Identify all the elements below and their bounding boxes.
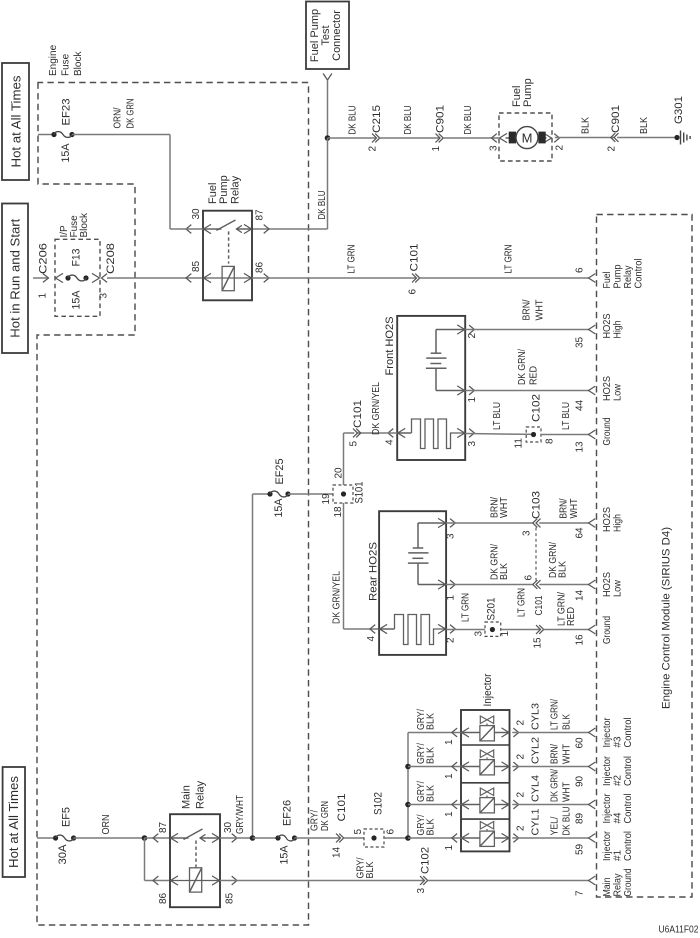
fuse EF25 15A bbox=[267, 459, 290, 518]
wire BRN/WHT bbox=[446, 497, 533, 523]
svg-text:C101: C101 bbox=[352, 400, 364, 428]
wire ORN bbox=[74, 815, 145, 839]
svg-text:EF5: EF5 bbox=[61, 807, 73, 827]
wire GRY/BLK bbox=[220, 857, 424, 880]
svg-text:C102: C102 bbox=[531, 394, 543, 422]
svg-text:EF26: EF26 bbox=[282, 800, 294, 826]
wire BLK bbox=[617, 117, 677, 138]
svg-text:#1: #1 bbox=[613, 850, 624, 861]
wire LT GRN/RED to ECM 16 bbox=[544, 592, 589, 630]
svg-text:F13: F13 bbox=[71, 249, 83, 267]
svg-text:2: 2 bbox=[607, 146, 618, 152]
svg-text:86: 86 bbox=[158, 892, 169, 904]
svg-text:C101: C101 bbox=[336, 794, 348, 822]
connector C215 pin 2 bbox=[368, 105, 384, 152]
svg-text:CYL3: CYL3 bbox=[531, 703, 542, 730]
svg-text:HO2S: HO2S bbox=[602, 313, 613, 338]
wire to EF26 bbox=[253, 837, 279, 839]
svg-text:15A: 15A bbox=[71, 290, 83, 310]
wire BRN/WHT to ECM 90 bbox=[512, 737, 588, 767]
svg-text:6: 6 bbox=[386, 829, 397, 835]
connector C101 pin 5 bbox=[349, 400, 365, 447]
svg-text:5: 5 bbox=[349, 441, 360, 447]
svg-text:2: 2 bbox=[516, 792, 527, 798]
svg-text:EF23: EF23 bbox=[61, 99, 73, 126]
wire DK GRN/YEL front pin4 bbox=[357, 382, 397, 435]
svg-text:3: 3 bbox=[446, 533, 457, 539]
svg-text:Control: Control bbox=[623, 718, 634, 748]
svg-text:DK GRN/YEL: DK GRN/YEL bbox=[332, 571, 343, 624]
svg-text:HO2S: HO2S bbox=[602, 572, 613, 597]
svg-text:2: 2 bbox=[516, 825, 527, 831]
svg-text:7: 7 bbox=[575, 890, 586, 896]
wire to ECM 7 bbox=[428, 880, 589, 882]
svg-text:15A: 15A bbox=[60, 143, 72, 163]
svg-text:WHT: WHT bbox=[562, 782, 573, 802]
svg-text:BLK: BLK bbox=[581, 117, 592, 134]
ECM pin 7 Main Relay Ground bbox=[575, 869, 635, 897]
svg-text:BRN/: BRN/ bbox=[559, 498, 570, 518]
Front HO2S pin 1 bbox=[457, 386, 478, 403]
Hot at All Times title (bottom) bbox=[3, 767, 25, 877]
ECM pin 44 HO2S Low bbox=[575, 376, 624, 411]
svg-text:HO2S: HO2S bbox=[602, 507, 613, 532]
ECM pin 89 Injector #4 Control bbox=[575, 793, 635, 824]
Engine Fuse Block label bbox=[48, 44, 84, 76]
svg-text:C101: C101 bbox=[409, 244, 421, 272]
svg-text:DK BLU: DK BLU bbox=[317, 191, 328, 220]
fuel pump M1 bbox=[489, 78, 566, 161]
svg-text:11: 11 bbox=[514, 438, 525, 449]
injector INJ2 bbox=[408, 743, 527, 779]
svg-text:Pump: Pump bbox=[613, 264, 624, 288]
svg-text:5: 5 bbox=[353, 829, 364, 835]
Rear HO2S pin 2 bbox=[438, 624, 456, 643]
svg-text:#2: #2 bbox=[613, 775, 624, 786]
svg-text:Control: Control bbox=[634, 259, 645, 289]
svg-text:ORN: ORN bbox=[101, 815, 112, 835]
Hot in Run and Start title bbox=[2, 204, 28, 354]
Rear HO2S pin 1 bbox=[438, 580, 456, 601]
connector C101 pin 14 bbox=[332, 794, 349, 859]
wire LT GRN bbox=[420, 245, 589, 279]
svg-text:35: 35 bbox=[575, 336, 586, 348]
wire DK BLU to relay 87 bbox=[252, 138, 328, 229]
svg-text:DK BLU: DK BLU bbox=[403, 106, 414, 135]
ECM pin 16 Ground bbox=[575, 616, 614, 646]
svg-text:BLK: BLK bbox=[365, 861, 376, 878]
svg-text:Injector: Injector bbox=[602, 755, 613, 786]
injector INJ4 bbox=[408, 781, 527, 817]
svg-text:Ground: Ground bbox=[623, 869, 634, 897]
Front HO2S pin 3 bbox=[457, 428, 478, 446]
svg-text:HO2S: HO2S bbox=[602, 376, 613, 401]
fuse F13 15A bbox=[65, 249, 88, 310]
svg-text:Rear HO2S: Rear HO2S bbox=[368, 542, 380, 601]
svg-text:WHT: WHT bbox=[562, 744, 573, 764]
ECM pin 59 Injector #1 Control bbox=[575, 830, 635, 861]
Engine Control Module (SIRIUS D4) bbox=[597, 215, 693, 898]
svg-text:4: 4 bbox=[366, 636, 377, 642]
wire YEL/DK BLU to ECM 59 bbox=[512, 807, 588, 839]
svg-text:3: 3 bbox=[99, 293, 110, 299]
connector C103 link bbox=[535, 528, 537, 581]
svg-text:6: 6 bbox=[524, 575, 535, 581]
Rear HO2S pin 3 bbox=[438, 518, 456, 539]
svg-text:3: 3 bbox=[416, 888, 427, 894]
svg-text:#3: #3 bbox=[613, 736, 624, 747]
svg-text:S102: S102 bbox=[373, 792, 385, 815]
wire branch to main relay 86 bbox=[145, 838, 171, 881]
svg-text:1: 1 bbox=[444, 845, 455, 851]
wire to S101 bbox=[288, 493, 333, 495]
splice S101 pins 19/20/18 bbox=[321, 467, 366, 518]
svg-text:Hot at All Times: Hot at All Times bbox=[9, 75, 24, 168]
fuse EF26 15A bbox=[275, 800, 297, 865]
svg-text:90: 90 bbox=[575, 775, 586, 787]
connector C103 pin 6 bbox=[524, 575, 546, 616]
splice S102 pins 5/6 bbox=[353, 792, 397, 847]
svg-text:1: 1 bbox=[444, 739, 455, 745]
node C junction bbox=[250, 835, 256, 841]
sensor B1 Front HO2S bbox=[384, 316, 465, 460]
svg-text:DK BLU: DK BLU bbox=[348, 106, 359, 135]
svg-text:BLK: BLK bbox=[426, 818, 437, 835]
wire DK GRN/YEL to rear pin4 bbox=[332, 503, 380, 629]
svg-text:Pump: Pump bbox=[218, 175, 230, 204]
svg-text:LT BLU: LT BLU bbox=[492, 402, 503, 430]
svg-text:C215: C215 bbox=[371, 105, 383, 133]
svg-text:LT GRN: LT GRN bbox=[504, 245, 515, 274]
svg-text:DK GRN: DK GRN bbox=[320, 801, 331, 831]
svg-text:CYL4: CYL4 bbox=[531, 775, 542, 802]
svg-text:Injector: Injector bbox=[602, 830, 613, 861]
svg-text:S101: S101 bbox=[354, 482, 366, 504]
svg-text:EF25: EF25 bbox=[274, 459, 286, 485]
svg-text:1: 1 bbox=[500, 631, 511, 637]
svg-text:2: 2 bbox=[516, 720, 527, 726]
svg-text:2: 2 bbox=[516, 754, 527, 760]
wire GRY/WHT riser bbox=[235, 494, 270, 838]
connector C103 pin 3 bbox=[522, 491, 543, 536]
svg-text:WHT: WHT bbox=[535, 300, 546, 321]
Engine Fuse Block outline bbox=[37, 83, 309, 926]
svg-text:13: 13 bbox=[575, 441, 586, 453]
connector C901 pin 2 bbox=[607, 105, 623, 152]
Rear HO2S heater bbox=[379, 615, 446, 645]
svg-text:Fuel: Fuel bbox=[602, 272, 613, 289]
svg-text:LT BLU: LT BLU bbox=[561, 402, 572, 430]
svg-text:Control: Control bbox=[623, 756, 634, 786]
svg-text:1: 1 bbox=[431, 146, 442, 152]
wire LT BLU bbox=[465, 402, 533, 434]
svg-text:RED: RED bbox=[529, 366, 540, 385]
svg-text:Front HO2S: Front HO2S bbox=[384, 317, 396, 376]
svg-text:15A: 15A bbox=[279, 845, 291, 865]
wire DK GRN/RED to ECM 44 bbox=[465, 349, 588, 391]
wire DK GRN/BLK to ECM 14 bbox=[539, 542, 588, 585]
wire ORN/DK GRN vertical bbox=[169, 135, 171, 230]
Rear HO2S pin 4 bbox=[366, 624, 387, 641]
svg-text:GRY/: GRY/ bbox=[310, 810, 321, 831]
svg-text:30: 30 bbox=[191, 208, 202, 220]
svg-text:86: 86 bbox=[255, 261, 266, 273]
svg-text:Fuse: Fuse bbox=[61, 53, 72, 76]
svg-text:2: 2 bbox=[555, 145, 566, 151]
svg-text:Low: Low bbox=[613, 579, 624, 597]
svg-text:Hot at All Times: Hot at All Times bbox=[6, 775, 21, 868]
injector INJ1 bbox=[408, 814, 527, 850]
relay K1 Fuel Pump Relay bbox=[186, 175, 269, 300]
connector C102 pin 3 bbox=[416, 847, 432, 894]
svg-text:LT GRN: LT GRN bbox=[461, 593, 472, 622]
wire LT GRN bbox=[252, 245, 416, 279]
I/P Fuse Block bbox=[55, 212, 100, 316]
ECM pin 13 Ground bbox=[575, 418, 614, 453]
svg-text:G301: G301 bbox=[673, 96, 685, 124]
wire DK GRN/BLK bbox=[446, 544, 533, 585]
wire BLK bbox=[555, 117, 614, 138]
injector assembly bbox=[461, 673, 510, 851]
svg-text:Relay: Relay bbox=[613, 874, 624, 897]
svg-text:1: 1 bbox=[446, 595, 457, 601]
ECM pin 60 Injector #3 Control bbox=[575, 717, 635, 749]
svg-text:2: 2 bbox=[446, 637, 457, 643]
svg-text:59: 59 bbox=[575, 843, 586, 855]
wire EF23 feed bbox=[38, 134, 54, 136]
svg-text:S201: S201 bbox=[486, 598, 498, 621]
svg-text:ORN/: ORN/ bbox=[113, 107, 124, 128]
svg-text:BLK: BLK bbox=[558, 561, 569, 578]
svg-text:U6A11F02: U6A11F02 bbox=[659, 925, 699, 936]
svg-text:2: 2 bbox=[368, 146, 379, 152]
svg-text:89: 89 bbox=[575, 812, 586, 824]
wire GRY/WHT bbox=[220, 837, 253, 839]
connector C206 pin 1 bbox=[33, 243, 50, 299]
wire DK BLU bbox=[443, 106, 499, 139]
wire LT BLU to ECM 13 bbox=[541, 402, 589, 435]
svg-text:Ground: Ground bbox=[602, 418, 613, 446]
svg-text:Control: Control bbox=[623, 831, 634, 861]
wire to S102 bbox=[344, 837, 364, 839]
svg-text:BRN/: BRN/ bbox=[522, 299, 533, 320]
svg-text:14: 14 bbox=[575, 589, 586, 601]
svg-text:Pump: Pump bbox=[522, 78, 534, 107]
svg-text:3: 3 bbox=[489, 145, 500, 151]
svg-text:C208: C208 bbox=[105, 243, 117, 274]
svg-text:C901: C901 bbox=[435, 105, 447, 133]
svg-text:87: 87 bbox=[158, 821, 169, 833]
svg-text:LT GRN/: LT GRN/ bbox=[550, 699, 561, 730]
svg-text:GRY/WHT: GRY/WHT bbox=[235, 795, 246, 834]
connector C208 pin 3 bbox=[92, 243, 117, 299]
svg-text:1: 1 bbox=[38, 293, 49, 299]
svg-text:Control: Control bbox=[623, 794, 634, 824]
wire DK BLU bbox=[380, 106, 441, 139]
svg-text:15: 15 bbox=[533, 637, 544, 649]
svg-text:15A: 15A bbox=[273, 498, 285, 518]
ground G301 bbox=[673, 96, 690, 145]
splice S201 pins 3/1 bbox=[474, 598, 512, 637]
connector C901 pin 1 bbox=[431, 105, 447, 152]
svg-text:64: 64 bbox=[575, 527, 586, 539]
svg-text:44: 44 bbox=[575, 399, 586, 411]
connector C101 pin 15 bbox=[533, 625, 544, 648]
svg-text:M: M bbox=[522, 130, 533, 145]
svg-text:14: 14 bbox=[332, 846, 343, 858]
wire DK BLU test connector drop bbox=[327, 80, 329, 138]
connector C101 pin 6 bbox=[408, 244, 421, 295]
svg-text:8: 8 bbox=[545, 438, 556, 444]
wire DK GRN/WHT to ECM 89 bbox=[512, 769, 588, 805]
sensor B2 Rear HO2S bbox=[368, 511, 447, 655]
svg-text:DK BLU: DK BLU bbox=[463, 106, 474, 135]
fuse EF5 30A bbox=[53, 807, 76, 865]
wire pin30 feed bbox=[170, 228, 203, 230]
svg-text:3: 3 bbox=[522, 530, 533, 536]
connector C102 pins 11/8 bbox=[514, 394, 556, 449]
svg-text:1: 1 bbox=[444, 811, 455, 817]
svg-text:RED: RED bbox=[566, 607, 577, 626]
injector INJ3 (top cell) bbox=[408, 709, 527, 745]
ECM pin 64 HO2S High bbox=[575, 507, 624, 539]
svg-text:19: 19 bbox=[321, 493, 332, 505]
svg-text:C101: C101 bbox=[534, 595, 545, 615]
Front HO2S battery cell bbox=[426, 330, 465, 391]
svg-text:BLK: BLK bbox=[639, 117, 650, 134]
svg-text:BLK: BLK bbox=[562, 714, 573, 730]
svg-text:#4: #4 bbox=[613, 812, 624, 823]
relay K2 Main Relay bbox=[153, 780, 237, 907]
svg-text:30A: 30A bbox=[57, 844, 69, 865]
node A junction bbox=[325, 135, 331, 141]
svg-text:85: 85 bbox=[191, 260, 202, 272]
svg-text:85: 85 bbox=[225, 892, 236, 904]
svg-text:Injector: Injector bbox=[482, 673, 494, 706]
svg-text:Low: Low bbox=[613, 383, 624, 401]
svg-text:60: 60 bbox=[575, 737, 586, 749]
svg-text:C102: C102 bbox=[420, 847, 432, 874]
Front HO2S pin 2 bbox=[457, 325, 478, 339]
svg-text:Engine Control Module (SIRIUS: Engine Control Module (SIRIUS D4) bbox=[661, 527, 673, 709]
svg-text:BLK: BLK bbox=[426, 747, 437, 764]
svg-text:2: 2 bbox=[467, 333, 478, 339]
svg-text:DK GRN/: DK GRN/ bbox=[550, 769, 561, 802]
ECM pin 35 HO2S High bbox=[575, 313, 624, 348]
Fuel Pump Test Connector bbox=[306, 2, 349, 81]
svg-text:BRN/: BRN/ bbox=[550, 744, 561, 764]
svg-text:Relay: Relay bbox=[230, 175, 242, 204]
svg-text:BLK: BLK bbox=[426, 785, 437, 802]
svg-text:C901: C901 bbox=[610, 105, 622, 133]
Front HO2S heater bbox=[397, 419, 465, 449]
wire BRN/WHT to ECM 64 bbox=[539, 498, 588, 523]
wire ORN/DK GRN bbox=[72, 99, 170, 135]
svg-text:3: 3 bbox=[474, 631, 485, 637]
svg-text:Injector: Injector bbox=[602, 793, 613, 824]
ECM pin 6 Fuel Pump Relay Control bbox=[575, 259, 645, 289]
fuse EF23 15A bbox=[51, 99, 74, 163]
svg-text:YEL/: YEL/ bbox=[550, 816, 561, 835]
ECM pin 14 HO2S Low bbox=[575, 572, 624, 601]
svg-text:Connector: Connector bbox=[331, 10, 343, 61]
svg-text:High: High bbox=[613, 514, 624, 532]
svg-text:16: 16 bbox=[575, 634, 586, 646]
wire LT GRN/BLK to ECM 60 bbox=[512, 699, 588, 733]
svg-text:87: 87 bbox=[255, 209, 266, 221]
wire LT GRN to C101 bbox=[501, 588, 540, 630]
wire GRY/DK GRN bbox=[295, 801, 341, 838]
svg-text:CYL1: CYL1 bbox=[531, 808, 542, 835]
wire BRN/WHT to ECM 35 bbox=[465, 299, 588, 329]
svg-text:CYL2: CYL2 bbox=[531, 737, 542, 764]
wire to relay 85 bbox=[107, 277, 203, 279]
svg-text:BLK: BLK bbox=[499, 563, 510, 580]
svg-text:High: High bbox=[613, 321, 624, 339]
wire to splice S101 bbox=[344, 433, 355, 485]
svg-text:DK BLU: DK BLU bbox=[562, 807, 573, 836]
svg-text:30: 30 bbox=[223, 821, 234, 833]
svg-text:C206: C206 bbox=[38, 243, 50, 274]
svg-text:3: 3 bbox=[467, 441, 478, 447]
svg-text:WHT: WHT bbox=[499, 497, 510, 518]
svg-text:1: 1 bbox=[444, 773, 455, 779]
svg-text:4: 4 bbox=[385, 439, 396, 445]
svg-text:Block: Block bbox=[79, 212, 90, 237]
svg-text:Relay: Relay bbox=[195, 780, 207, 809]
wire DK BLU bbox=[328, 106, 377, 139]
svg-text:LT GRN: LT GRN bbox=[517, 588, 528, 617]
svg-text:DK GRN/YEL: DK GRN/YEL bbox=[371, 382, 382, 435]
node B junction bbox=[142, 835, 148, 841]
svg-text:C103: C103 bbox=[531, 491, 543, 519]
svg-text:Injector: Injector bbox=[602, 717, 613, 748]
ECM pin 90 Injector #2 Control bbox=[575, 755, 635, 787]
svg-text:6: 6 bbox=[575, 267, 586, 273]
Hot at All Times title (top) bbox=[2, 63, 29, 180]
svg-text:Hot in Run and Start: Hot in Run and Start bbox=[8, 218, 23, 337]
Front HO2S pin 4 bbox=[385, 428, 406, 445]
svg-text:1: 1 bbox=[467, 397, 478, 403]
wire to injector bus bbox=[384, 837, 408, 839]
svg-text:Relay: Relay bbox=[623, 266, 634, 289]
svg-text:Engine: Engine bbox=[48, 44, 59, 76]
svg-text:DK GRN: DK GRN bbox=[126, 99, 137, 129]
svg-text:WHT: WHT bbox=[569, 499, 580, 519]
wire LT GRN rear pin2 bbox=[446, 593, 485, 630]
svg-text:DK GRN/: DK GRN/ bbox=[517, 349, 528, 385]
svg-text:Main: Main bbox=[602, 878, 613, 897]
svg-text:Ground: Ground bbox=[602, 616, 613, 644]
wire to main relay 87 bbox=[145, 837, 171, 839]
svg-text:18: 18 bbox=[333, 506, 344, 518]
wire EF5 feed bbox=[37, 837, 56, 839]
svg-text:6: 6 bbox=[408, 289, 419, 295]
Rear HO2S battery cell bbox=[408, 523, 446, 585]
svg-text:20: 20 bbox=[334, 467, 345, 479]
svg-text:LT GRN: LT GRN bbox=[347, 245, 358, 274]
drawing number U6A11F02 bbox=[659, 925, 699, 936]
svg-text:Block: Block bbox=[73, 51, 84, 76]
svg-text:Main: Main bbox=[181, 785, 193, 809]
injector feed bus bbox=[405, 733, 411, 841]
svg-text:BLK: BLK bbox=[426, 713, 437, 730]
